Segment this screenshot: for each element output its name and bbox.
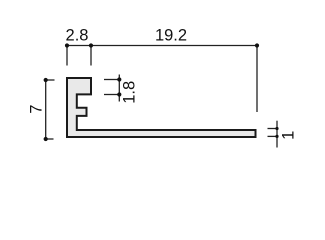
- dimension 7 (left vertical): [46, 80, 55, 139]
- extension line left: [66, 46, 68, 66]
- dimension 1 (flange thickness, right): [268, 121, 278, 148]
- profile cross-section body: [67, 78, 256, 137]
- extension line right: [256, 46, 258, 113]
- svg-text:7: 7: [28, 105, 46, 114]
- svg-text:1.8: 1.8: [120, 81, 138, 104]
- svg-text:19.2: 19.2: [155, 26, 187, 44]
- dimension 1.8 (top arm thickness): [104, 75, 119, 102]
- dimension line top (2.8 / 19.2): [67, 46, 257, 113]
- dot endpoints top dimension: [65, 43, 259, 47]
- svg-text:2.8: 2.8: [66, 27, 89, 45]
- svg-text:1: 1: [280, 131, 298, 140]
- extension line mid: [90, 46, 92, 66]
